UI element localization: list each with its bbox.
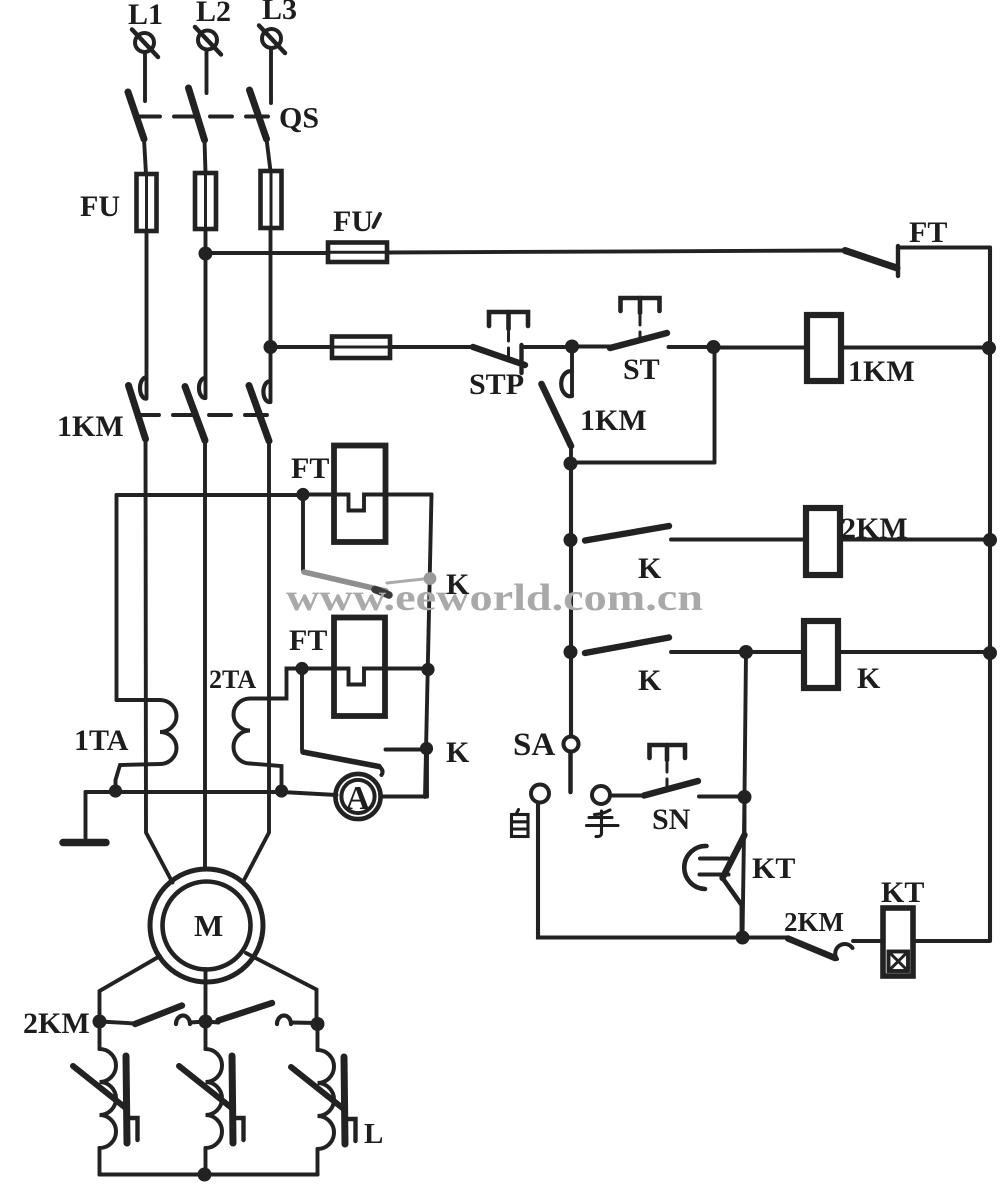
svg-text:K: K: [446, 568, 470, 601]
svg-text:ST: ST: [623, 353, 660, 386]
svg-text:STP: STP: [469, 368, 524, 401]
svg-text:L: L: [364, 1118, 383, 1150]
svg-text:1KM: 1KM: [580, 404, 647, 437]
svg-text:FT: FT: [289, 624, 327, 657]
svg-text:L2: L2: [196, 0, 231, 28]
svg-text:L1: L1: [128, 0, 163, 31]
svg-text:K: K: [638, 664, 662, 697]
svg-text:1KM: 1KM: [57, 410, 124, 443]
svg-text:SA: SA: [513, 727, 555, 763]
svg-text:K: K: [638, 552, 662, 585]
svg-text:L3: L3: [262, 0, 297, 26]
svg-text:FU: FU: [80, 190, 120, 223]
svg-text:M: M: [194, 908, 223, 943]
svg-text:K: K: [857, 662, 881, 695]
svg-text:1KM: 1KM: [848, 355, 915, 388]
svg-text:2KM: 2KM: [23, 1007, 90, 1040]
svg-text:KT: KT: [752, 852, 795, 885]
svg-text:2TA: 2TA: [209, 665, 256, 694]
svg-text:2KM: 2KM: [784, 907, 844, 937]
svg-text:1TA: 1TA: [74, 724, 129, 757]
svg-text:K: K: [446, 736, 470, 769]
svg-text:A: A: [346, 780, 371, 817]
svg-text:FU: FU: [333, 205, 373, 238]
svg-text:QS: QS: [279, 102, 319, 135]
svg-text:SN: SN: [652, 803, 691, 836]
svg-text:FT: FT: [291, 452, 329, 485]
svg-text:2KM: 2KM: [841, 512, 908, 545]
svg-text:KT: KT: [881, 876, 924, 909]
svg-text:FT: FT: [909, 216, 947, 249]
